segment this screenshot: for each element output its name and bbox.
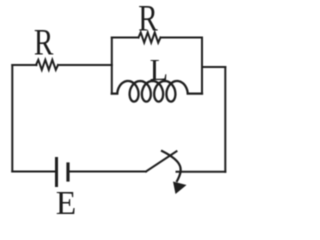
switch arrow head <box>173 182 187 195</box>
wire: parallel block left edge <box>111 38 113 94</box>
battery E positive plate (long) <box>55 159 58 186</box>
wire: left vertical <box>11 65 13 172</box>
wire: top horizontal from R1 to parallel block <box>58 64 112 66</box>
wire: right link from block to outer right wire <box>202 66 225 68</box>
inductor L coil <box>112 81 202 102</box>
wire: battery to switch pivot <box>70 171 147 173</box>
switch S lever arm <box>146 151 177 171</box>
svg-text:L: L <box>150 52 169 87</box>
switch closing-motion arc <box>162 151 181 181</box>
wire: top-left horizontal to resistor R1 <box>12 64 36 66</box>
svg-text:E: E <box>56 185 77 217</box>
wire: bottom right horizontal to switch contact <box>177 171 226 173</box>
wire: parallel block right edge <box>201 38 203 94</box>
wire: top branch left segment <box>112 37 139 39</box>
wire: bottom left horizontal from left corner to battery <box>12 171 55 173</box>
wire: outer right vertical <box>224 67 226 172</box>
svg-text:R: R <box>34 22 54 63</box>
svg-text:R: R <box>138 0 158 38</box>
battery E negative plate (short) <box>66 164 69 180</box>
wire: top branch right segment <box>161 37 203 39</box>
resistor R1 <box>36 60 58 70</box>
resistor R2 <box>139 32 161 42</box>
